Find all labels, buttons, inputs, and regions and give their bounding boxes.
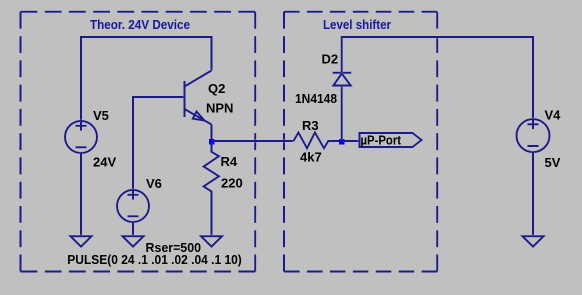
base bar: [184, 81, 186, 117]
node: R3 / D2 junction (solid square): [339, 139, 345, 145]
wire: V6 minus to ground: [132, 222, 134, 236]
collector diagonal: [185, 71, 212, 87]
svg-text:R4: R4: [221, 154, 238, 169]
wire: node up to D2 anode: [341, 86, 343, 140]
svg-text:Q2: Q2: [208, 81, 225, 96]
wire: D2 cathode up and top rail to V4: [342, 37, 533, 119]
svg-text:24V: 24V: [93, 155, 116, 170]
enclosure box: Theor. 24V Device: [21, 12, 256, 272]
svg-text:1N4148: 1N4148: [295, 91, 337, 106]
emitter wire down to node: [211, 125, 213, 140]
svg-text:µP-Port: µP-Port: [361, 132, 402, 147]
emitter diagonal: [185, 109, 212, 125]
svg-text:R3: R3: [302, 118, 319, 133]
voltage source V4: [517, 119, 550, 152]
svg-text:D2: D2: [322, 52, 339, 67]
wire: box1 top horizontal rail from V5 to Q2 collector: [81, 37, 212, 121]
wire: emitter node to R3: [214, 140, 294, 142]
cathode bar: [333, 72, 352, 74]
wire: V4 minus to ground: [532, 152, 534, 236]
svg-text:5V: 5V: [545, 155, 561, 170]
svg-text:Level shifter: Level shifter: [323, 17, 391, 32]
svg-text:4k7: 4k7: [300, 150, 322, 165]
svg-text:V6: V6: [146, 176, 162, 191]
enclosure box: Level shifter: [284, 12, 437, 272]
node: emitter junction (solid square): [209, 139, 215, 145]
emitter arrowhead: [193, 112, 205, 121]
svg-text:NPN: NPN: [206, 101, 233, 116]
wire: node to port flag: [344, 140, 360, 142]
ground (V4): [523, 236, 544, 246]
svg-text:V4: V4: [545, 108, 562, 123]
transistor Q2 (NPN): [185, 71, 212, 140]
anode triangle: [333, 74, 350, 86]
svg-text:220: 220: [221, 176, 243, 191]
resistor R3: [294, 133, 340, 149]
ground (R4): [201, 236, 222, 246]
diode D2: [333, 73, 352, 86]
wire: V6 top to Q2 base: [133, 97, 184, 190]
ground (V6): [123, 236, 144, 246]
voltage source V6: [117, 190, 149, 222]
resistor R4: [204, 144, 219, 236]
svg-text:Theor. 24V Device: Theor. 24V Device: [90, 17, 190, 32]
port flag µP-Port: [360, 133, 422, 147]
svg-text:PULSE(0 24 .1 .01 .02 .04 .1 1: PULSE(0 24 .1 .01 .02 .04 .1 10): [67, 252, 242, 267]
ground (V5): [71, 236, 92, 246]
voltage source V5: [65, 121, 97, 153]
svg-text:V5: V5: [93, 108, 109, 123]
wire: V5 minus to ground: [80, 153, 82, 236]
